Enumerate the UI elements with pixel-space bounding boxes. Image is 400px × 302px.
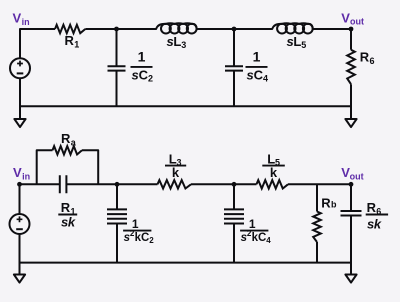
svg-text:5: 5 bbox=[301, 40, 306, 50]
svg-text:6: 6 bbox=[370, 56, 375, 66]
svg-text:R: R bbox=[367, 200, 377, 215]
svg-text:V: V bbox=[341, 10, 350, 25]
svg-text:R: R bbox=[360, 50, 370, 65]
svg-text:R: R bbox=[61, 200, 71, 215]
svg-text:k: k bbox=[374, 217, 382, 232]
svg-text:R: R bbox=[65, 33, 75, 48]
svg-text:out: out bbox=[350, 171, 364, 181]
svg-text:V: V bbox=[13, 165, 22, 180]
svg-text:4: 4 bbox=[263, 74, 268, 84]
svg-text:b: b bbox=[331, 199, 337, 209]
svg-text:R: R bbox=[321, 195, 331, 210]
svg-text:in: in bbox=[22, 17, 30, 27]
svg-text:a: a bbox=[71, 137, 77, 147]
svg-text:1: 1 bbox=[74, 40, 79, 50]
svg-text:k: k bbox=[270, 165, 278, 180]
svg-text:V: V bbox=[13, 10, 22, 25]
svg-text:2: 2 bbox=[148, 74, 153, 84]
svg-text:C: C bbox=[141, 232, 149, 244]
svg-text:4: 4 bbox=[266, 236, 271, 245]
svg-text:k: k bbox=[68, 215, 76, 230]
svg-text:k: k bbox=[172, 165, 180, 180]
svg-text:1: 1 bbox=[253, 49, 261, 65]
svg-text:3: 3 bbox=[181, 40, 186, 50]
svg-text:R: R bbox=[61, 131, 71, 146]
svg-text:L: L bbox=[293, 34, 301, 49]
svg-text:2: 2 bbox=[149, 236, 154, 245]
svg-text:6: 6 bbox=[376, 207, 381, 217]
svg-text:1: 1 bbox=[138, 49, 146, 65]
svg-text:in: in bbox=[22, 172, 30, 182]
svg-text:out: out bbox=[350, 16, 364, 26]
svg-text:L: L bbox=[173, 34, 181, 49]
svg-text:C: C bbox=[258, 232, 266, 244]
